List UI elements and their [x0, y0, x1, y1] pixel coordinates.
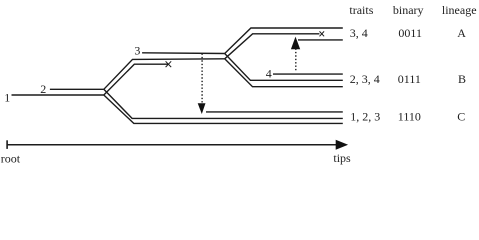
svg-text:1110: 1110	[398, 110, 421, 124]
wire trait-2 descent to lineage B	[225, 59, 343, 87]
svg-text:1: 1	[4, 90, 10, 104]
svg-text:B: B	[458, 72, 466, 86]
wire trait-4 segment on lineage B	[273, 73, 343, 75]
svg-text:2, 3, 4: 2, 3, 4	[350, 72, 380, 86]
dotted transfer arrow of trait 4 up to lineage A	[291, 37, 300, 72]
svg-text:4: 4	[266, 67, 272, 81]
wire trait-1 rise to middle branch (terminated by loss cross)	[104, 64, 168, 95]
svg-text:root: root	[1, 151, 21, 165]
wire trait-2 root segment	[50, 88, 104, 90]
wire trait-4 segment on lineage A (gained by transfer)	[298, 39, 343, 41]
loss cross on trait 1 (middle branch)	[166, 61, 172, 67]
svg-text:binary: binary	[393, 3, 424, 17]
svg-text:lineage: lineage	[442, 3, 477, 17]
svg-text:1, 2, 3: 1, 2, 3	[350, 110, 380, 124]
svg-text:A: A	[457, 26, 466, 40]
wire trait-2 rise to middle branch	[104, 59, 225, 90]
wire trait-1 descent to lineage C	[104, 95, 343, 123]
wire trait-2 rise to lineage A (terminated by loss cross)	[225, 34, 320, 59]
wire trait-3 rise to lineage A	[225, 28, 343, 54]
wire trait-3 descent to lineage B	[225, 54, 343, 81]
time axis line	[7, 144, 336, 146]
svg-text:2: 2	[40, 82, 46, 96]
svg-text:0011: 0011	[398, 26, 422, 40]
wire trait-3 segment on lineage C (gained by transfer)	[206, 111, 343, 113]
wire trait-2 descent to lineage C	[104, 89, 343, 118]
svg-text:3: 3	[134, 44, 140, 58]
time axis arrowhead at tips	[336, 140, 348, 150]
wire trait-3 middle branch segment	[142, 52, 225, 55]
wire trait-1 root segment	[12, 94, 104, 96]
svg-text:C: C	[457, 110, 465, 124]
time axis root tick	[6, 140, 8, 149]
dotted transfer arrow of trait 3 down to lineage C	[198, 54, 206, 115]
svg-text:tips: tips	[333, 151, 351, 165]
svg-text:0111: 0111	[398, 72, 421, 86]
svg-text:3, 4: 3, 4	[350, 26, 368, 40]
loss cross on trait 2 (lineage A)	[320, 31, 325, 36]
svg-text:traits: traits	[349, 3, 373, 17]
